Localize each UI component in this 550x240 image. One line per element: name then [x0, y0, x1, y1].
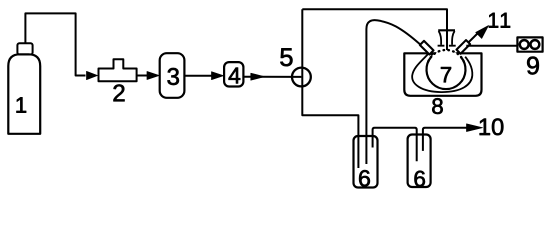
label 11 [489, 13, 510, 28]
valve 5 [292, 68, 311, 87]
flask 7 solid outline [427, 57, 466, 89]
water bath 8 [404, 53, 481, 96]
flask body mask [427, 50, 466, 89]
cylinder valve cap [17, 43, 32, 54]
wire cylinder to regulator 2 [25, 13, 85, 75]
arrowhead mid-line to 5 [251, 73, 265, 80]
gas meter 9 [517, 37, 542, 51]
dryer column 3 [160, 53, 185, 98]
label 5 [280, 48, 292, 66]
right port joint [456, 40, 470, 54]
flask dotted shoulder [428, 50, 463, 61]
label 4 [229, 68, 241, 84]
outlet tube to arrow 10 [423, 128, 467, 151]
wire 2 to 3 [137, 75, 148, 77]
bubbler 6b [408, 135, 431, 188]
label 3 [168, 68, 179, 85]
filter 4 [224, 62, 243, 86]
label 6b [414, 171, 424, 187]
arrowhead into 3 [147, 72, 159, 80]
bubbler 6a [354, 136, 378, 188]
label 2 [114, 84, 125, 101]
arrowhead into 4 [212, 72, 224, 80]
wire 4 to 5 [243, 76, 301, 78]
center neck joint [438, 29, 455, 31]
label 6a [359, 170, 370, 186]
arrowhead into 2 [87, 71, 98, 79]
label 9 [527, 57, 539, 75]
top wire from valve 5 to flask neck [302, 9, 447, 65]
left port joint [420, 41, 434, 55]
wire to gas meter 9 [466, 45, 517, 47]
label 8 [432, 98, 442, 114]
transfer tube 6a to 6b [373, 128, 417, 162]
curved tube flask to bubbler 6a [366, 20, 433, 164]
regulator 2 [99, 59, 137, 81]
arrow 11 vent shaft [454, 32, 480, 58]
bath liquid cradle [412, 53, 472, 93]
label 7 [441, 67, 451, 82]
vertical wire through valve 5 down to bubbler 6a [302, 9, 358, 168]
wire 3 to 4 [184, 75, 212, 77]
gas cylinder 1 [8, 54, 40, 134]
label 10 [480, 118, 504, 135]
label 1 [17, 97, 27, 112]
